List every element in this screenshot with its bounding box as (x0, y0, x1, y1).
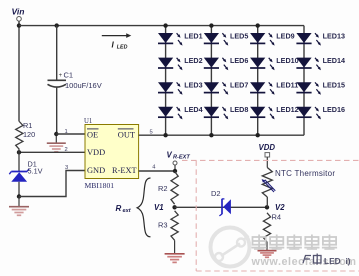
zener diode D1 (9, 149, 42, 196)
svg-text:LED10: LED10 (276, 56, 298, 65)
LED LED7 (204, 81, 249, 95)
junction D1 bottom (17, 194, 21, 198)
op-amp U1 MBI1801 (84, 118, 139, 190)
current arrow I_LED (102, 33, 132, 50)
junction Vin rail (17, 23, 21, 27)
svg-text:LED5: LED5 (230, 31, 248, 40)
wire pin 3 GND path (19, 165, 85, 197)
LED LED1 (158, 31, 203, 45)
svg-text:LED13: LED13 (323, 31, 345, 40)
svg-text:LED7: LED7 (230, 81, 248, 90)
svg-text:LED: LED (117, 44, 128, 50)
dashed boundary box (182, 160, 359, 271)
resistor R3 (158, 211, 178, 241)
svg-text:ext: ext (123, 208, 132, 214)
node V2 (265, 203, 285, 212)
junction R1 bottom / VDD node (17, 150, 21, 154)
wire pin 2 VDD (19, 147, 85, 153)
junction top rail col 1 (163, 23, 167, 27)
svg-text:LED12: LED12 (276, 105, 298, 114)
svg-text:+: + (59, 73, 63, 79)
node V1 (154, 203, 177, 212)
junction top rail col 2 (209, 23, 213, 27)
wire Vin down to R1 (18, 21, 20, 121)
terminal Vin (12, 7, 25, 22)
wire C1 branch upper (56, 26, 58, 80)
wire pin 1 to OE (56, 129, 85, 135)
junction C1 top (55, 23, 59, 27)
svg-text:5.1V: 5.1V (28, 167, 43, 176)
svg-text:V2: V2 (275, 203, 285, 212)
wire top supply rail (19, 25, 304, 27)
LED LED5 (204, 31, 249, 45)
svg-text:VDD: VDD (259, 143, 276, 152)
svg-text:R-EXT: R-EXT (173, 154, 190, 160)
brace R_ext (116, 178, 151, 237)
wire LED column 4 (303, 26, 305, 136)
junction bottom rail col 3 (256, 133, 260, 137)
svg-text:5: 5 (150, 130, 153, 136)
LED LED11 (250, 81, 298, 95)
svg-text:LED2: LED2 (184, 56, 202, 65)
svg-text:2: 2 (65, 147, 68, 153)
LED LED3 (158, 81, 203, 95)
LED LED14 (296, 56, 345, 70)
LED LED12 (250, 105, 299, 119)
svg-text:GND: GND (87, 166, 105, 175)
svg-text:Vin: Vin (12, 7, 25, 17)
junction bottom rail col 2 (209, 133, 213, 137)
svg-text:U1: U1 (84, 118, 92, 125)
capacitor C1 (48, 71, 102, 91)
watermark url text (251, 256, 357, 268)
svg-text:120: 120 (23, 130, 35, 139)
diode D2 (211, 189, 231, 216)
svg-text:LED16: LED16 (323, 105, 345, 114)
junction top rail col 3 (256, 23, 260, 27)
svg-text:R2: R2 (158, 184, 168, 193)
ground below R3 (165, 240, 185, 262)
watermark logo circle (211, 228, 250, 267)
svg-text:LED4: LED4 (184, 105, 202, 114)
svg-text:OUT: OUT (118, 130, 135, 139)
svg-text:R: R (116, 204, 122, 213)
wire pin 5 OUT to LED bottom rail (139, 130, 304, 136)
resistor R4 (263, 213, 281, 242)
svg-text:i): i) (346, 256, 351, 266)
ground below R4 (258, 242, 277, 257)
LED LED13 (296, 31, 345, 45)
LED LED2 (158, 56, 203, 70)
svg-text:MBI1801: MBI1801 (85, 181, 115, 190)
svg-text:R4: R4 (272, 213, 282, 222)
thermistor NTC (262, 168, 336, 208)
caption guangdong LED (303, 254, 351, 266)
svg-text:LED11: LED11 (276, 81, 298, 90)
svg-text:LED3: LED3 (184, 81, 202, 90)
svg-text:LED1: LED1 (184, 31, 202, 40)
ground below D1 (9, 197, 29, 216)
LED LED10 (250, 56, 299, 70)
wire V1 to V2 (175, 206, 267, 208)
svg-text:LED15: LED15 (323, 81, 345, 90)
svg-text:V1: V1 (154, 203, 164, 212)
LED LED9 (250, 31, 295, 45)
watermark text big (252, 235, 338, 250)
node V_R-EXT (167, 151, 191, 174)
junction bottom rail col 1 (163, 133, 167, 137)
svg-text:100uF/16V: 100uF/16V (65, 81, 102, 90)
svg-text:NTC Thermsitor: NTC Thermsitor (275, 169, 335, 178)
svg-text:C1: C1 (64, 71, 74, 80)
svg-text:R3: R3 (158, 221, 168, 230)
wire LED column 3 (257, 26, 259, 136)
LED LED6 (204, 56, 249, 70)
LED LED16 (296, 105, 345, 119)
LED LED15 (296, 81, 345, 95)
LED LED4 (158, 105, 203, 119)
wire C1 branch lower (56, 88, 58, 134)
svg-text:OE: OE (87, 130, 98, 139)
junction OE node (54, 132, 58, 136)
wire LED column 1 (165, 26, 167, 136)
svg-text:1: 1 (65, 129, 68, 135)
terminal VDD (259, 143, 276, 168)
svg-text:LED9: LED9 (276, 31, 294, 40)
wire pin 4 R-EXT (139, 164, 175, 171)
LED LED8 (204, 105, 249, 119)
svg-text:3: 3 (65, 165, 68, 171)
svg-text:LED14: LED14 (323, 56, 345, 65)
svg-text:D2: D2 (211, 189, 221, 198)
resistor R2 (158, 172, 178, 205)
svg-text:LED6: LED6 (230, 56, 248, 65)
resistor R1 (16, 121, 35, 149)
svg-text:LED: LED (324, 256, 341, 266)
svg-text:VDD: VDD (87, 148, 105, 157)
svg-text:LED8: LED8 (230, 105, 248, 114)
svg-text:R-EXT: R-EXT (112, 166, 137, 175)
ground at C1/OE node (47, 136, 66, 152)
wire LED column 2 (210, 26, 212, 136)
svg-text:V: V (167, 151, 173, 160)
